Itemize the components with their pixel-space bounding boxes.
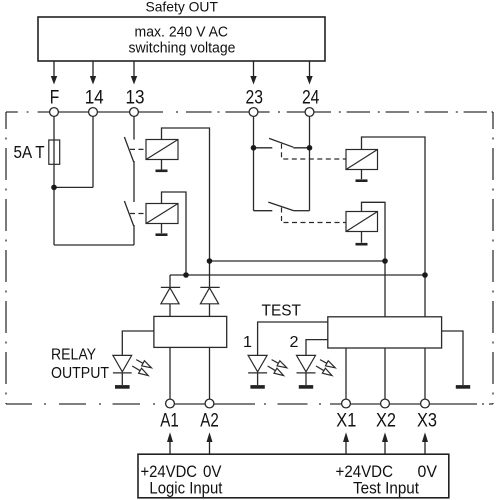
svg-text:F: F xyxy=(50,87,60,108)
svg-text:max. 240 V AC: max. 240 V AC xyxy=(135,23,229,40)
svg-text:Test Input: Test Input xyxy=(353,479,419,497)
svg-text:2: 2 xyxy=(290,334,299,351)
svg-text:13: 13 xyxy=(126,87,145,108)
svg-text:RELAY: RELAY xyxy=(51,346,96,363)
svg-text:23: 23 xyxy=(246,87,264,108)
svg-text:24: 24 xyxy=(302,87,320,108)
svg-text:0V: 0V xyxy=(418,463,438,481)
svg-text:A1: A1 xyxy=(160,410,179,431)
svg-text:X2: X2 xyxy=(376,410,396,431)
svg-text:1: 1 xyxy=(243,334,252,351)
svg-text:Logic Input: Logic Input xyxy=(149,479,222,497)
svg-text:5A T: 5A T xyxy=(14,142,45,162)
svg-text:X3: X3 xyxy=(417,410,437,431)
svg-text:switching voltage: switching voltage xyxy=(129,40,236,57)
svg-text:A2: A2 xyxy=(200,410,219,431)
svg-text:TEST: TEST xyxy=(262,302,302,319)
svg-text:X1: X1 xyxy=(336,410,356,431)
svg-text:Safety OUT: Safety OUT xyxy=(145,0,218,14)
svg-text:14: 14 xyxy=(85,87,104,108)
svg-text:OUTPUT: OUTPUT xyxy=(51,365,109,382)
